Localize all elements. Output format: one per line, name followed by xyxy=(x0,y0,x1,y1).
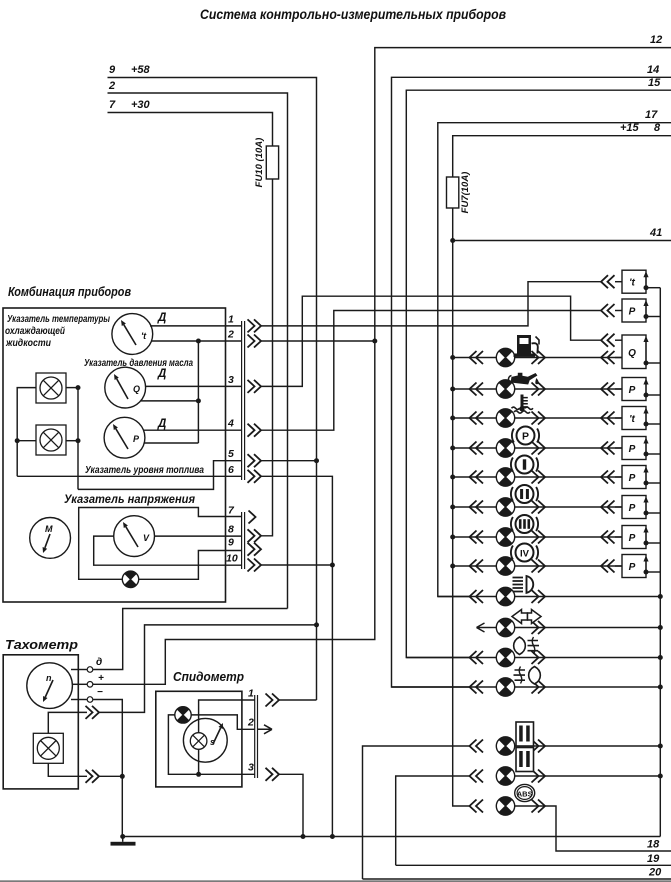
icon coolant temperature xyxy=(512,395,534,414)
svg-text:Спидометр: Спидометр xyxy=(173,669,244,684)
indicator lamp oil pressure xyxy=(496,380,514,398)
wire fuel gauge to +12 bus corner xyxy=(144,442,198,444)
voltmeter gauge V xyxy=(114,516,155,557)
right chevron oil pressure row xyxy=(532,383,546,396)
speedometer pin 1 xyxy=(248,688,279,707)
indicator lamp fuel level xyxy=(496,348,514,366)
tach lamp minus chevron xyxy=(86,770,100,783)
svg-text:1: 1 xyxy=(228,313,234,325)
sensor parking brake (P) xyxy=(622,437,660,460)
wire lamp to sensor axle II xyxy=(515,506,622,508)
icon circuit III xyxy=(511,515,538,533)
wire lamp HL2 left xyxy=(17,440,36,442)
svg-text:Q: Q xyxy=(628,348,636,359)
wire +15 bus to axle III lamp row xyxy=(453,536,497,538)
junction lamp plus bus top xyxy=(76,385,81,390)
junction plus bus at HL2 xyxy=(76,438,81,443)
junction +15 bus row IV xyxy=(450,564,455,569)
icon oil can xyxy=(509,373,539,385)
wire pin 2 to +12 line-12 bus xyxy=(261,340,375,342)
svg-text:P: P xyxy=(133,434,140,444)
wire lamp HL2 right xyxy=(66,440,78,442)
sensor chevron axle I xyxy=(601,471,615,484)
svg-text:Д: Д xyxy=(157,312,166,324)
cluster pin 8 xyxy=(228,523,261,542)
sensor axle IV (P) xyxy=(622,555,660,578)
junction ground bus brake 1 xyxy=(658,744,663,749)
indicator lamp of speedometer xyxy=(175,707,191,723)
wire speedo lamp bottom to ground wire xyxy=(198,749,200,774)
cluster pin 7 xyxy=(228,505,256,524)
junction minus riser xyxy=(120,774,125,779)
icon front fog lamp xyxy=(514,637,539,655)
wire line 41 from +15 bus to right edge xyxy=(453,240,671,242)
cluster pin 6 xyxy=(228,464,261,483)
left chevron axle III row xyxy=(470,531,484,544)
wire line 20 xyxy=(363,878,671,880)
wire voltmeter left to pin 10 xyxy=(94,536,242,565)
sensor input stub axle III xyxy=(615,536,622,538)
wire tach lamp plus to chevron xyxy=(48,712,87,733)
sensor chevron parking brake xyxy=(601,442,615,455)
indicator lamp ABS xyxy=(496,797,514,815)
wire +15 bus to fuel level lamp row xyxy=(453,357,497,359)
wire turn lamp to ground bus xyxy=(515,627,661,629)
wire +15 bus to oil pressure lamp row xyxy=(453,388,497,390)
icon rear fog lamp xyxy=(514,667,541,685)
right chevron axle II row xyxy=(532,501,546,514)
junction speedo ground riser xyxy=(301,834,306,839)
svg-text:8: 8 xyxy=(228,523,234,535)
wire lamp to sensor axle IV xyxy=(515,565,622,567)
icon brake pads 1 xyxy=(516,722,534,746)
wire +15 bus to coolant temp lamp row xyxy=(453,417,497,419)
junction +12 internal bus at temp gauge xyxy=(196,339,201,344)
left chevron rear fog xyxy=(470,681,484,694)
svg-text:P: P xyxy=(629,385,636,396)
wire +15 bus to axle I lamp row xyxy=(453,476,497,478)
wire line 2 to vertical bus x=287.5 xyxy=(108,93,288,609)
illumination lamp HL1 of cluster xyxy=(36,373,66,403)
sensor common ground bus (right) xyxy=(659,288,661,837)
svg-text:14: 14 xyxy=(647,64,659,76)
sensor chevron fuel level xyxy=(601,351,615,364)
wire lamp front fog to ground bus xyxy=(515,657,661,659)
open arrow turn signal feed xyxy=(477,623,491,632)
svg-text:2: 2 xyxy=(108,80,115,92)
chevron fuel gauge input of Q xyxy=(601,334,615,347)
wire pin 8 from FU10 is drawn above xyxy=(261,535,262,537)
svg-text:12: 12 xyxy=(650,34,662,46)
svg-text:P: P xyxy=(629,473,636,484)
oil pressure gauge xyxy=(105,367,146,408)
svg-text:FU7(10A): FU7(10A) xyxy=(460,172,471,214)
svg-text:ABS: ABS xyxy=(517,789,533,798)
lamp plus bus x=78 xyxy=(77,388,79,490)
junction ground bus rear fog xyxy=(658,685,663,690)
instrument cluster box xyxy=(3,308,226,602)
wire +15 bus to axle IV lamp row xyxy=(453,565,497,567)
junction ground bus headlamp beam xyxy=(658,594,663,599)
wire lamp to sensor oil pressure xyxy=(515,388,622,390)
ground symbol xyxy=(111,837,136,846)
fuse FU7 (10A) xyxy=(447,172,472,214)
sensor chevron coolant temp xyxy=(601,412,615,425)
svg-text:4: 4 xyxy=(227,418,234,430)
junction minus bus at HL2 xyxy=(15,438,20,443)
svg-text:8: 8 xyxy=(654,122,661,134)
wire lamp HL1 right to lamp plus bus xyxy=(66,387,78,389)
clock gauge М xyxy=(30,518,71,559)
wire line 15 bus (x=406.3) down to front fog lamp row xyxy=(406,90,671,657)
svg-text:2: 2 xyxy=(247,717,254,729)
cluster connector block pins 1-6 xyxy=(241,321,243,480)
svg-text:Указатель уровня топлива: Указатель уровня топлива xyxy=(85,464,204,476)
wire temp gauge to pin 1 xyxy=(150,325,242,327)
wire pin 3 to fuel sender Q xyxy=(261,296,601,386)
speedometer illumination lamp xyxy=(190,733,207,750)
junction pin5 on +58 bus xyxy=(314,458,319,463)
junction +15 bus row park xyxy=(450,446,455,451)
left chevron parking brake row xyxy=(470,442,484,455)
junction pin2 on line-12 bus xyxy=(372,339,377,344)
junction +15 bus row I xyxy=(450,475,455,480)
sensor input stub axle I xyxy=(615,476,622,478)
left chevron oil pressure row xyxy=(470,383,484,396)
wire brake-1 lamp to ground bus xyxy=(515,745,661,747)
icon circuit I xyxy=(511,456,538,474)
fuel level gauge xyxy=(104,417,145,458)
svg-text:6: 6 xyxy=(228,464,234,476)
cluster pin 5 xyxy=(228,448,261,467)
right chevron turn row xyxy=(532,621,546,634)
wire line 8 (+15) down to fuse FU7 xyxy=(453,136,671,177)
svg-text:FU10 (10A): FU10 (10A) xyxy=(254,138,265,188)
svg-text:+15: +15 xyxy=(620,122,640,134)
svg-text:Тахометр: Тахометр xyxy=(5,637,78,652)
svg-text:жидкости: жидкости xyxy=(5,337,51,349)
junction +58 bus to tach/speedo illumination xyxy=(314,622,319,627)
sensor input stub axle IV xyxy=(615,565,622,567)
internal +12 bus of cluster xyxy=(197,341,199,443)
wire voltmeter right to pin 8 xyxy=(155,535,243,537)
right chevron fuel level row xyxy=(532,351,546,364)
svg-text:Система контрольно-измеритель: Система контрольно-измерительных приборо… xyxy=(200,7,506,22)
sensor axle II (P) xyxy=(622,496,660,519)
wire speedo illumination lamp to pin 1 xyxy=(199,700,255,733)
junction +15 bus row temp xyxy=(450,416,455,421)
wire lamp headlamp beam to ground bus xyxy=(515,596,661,598)
svg-text:17: 17 xyxy=(645,109,658,121)
icon fuel pump xyxy=(514,335,540,357)
wire line 14 bus (x=391.5) down to rear fog lamp row xyxy=(392,77,671,687)
icon turn signals xyxy=(512,610,541,624)
wire line 17 bus (x=437.8) down to headlamp row xyxy=(438,123,671,597)
sensor axle III (P) xyxy=(622,526,660,549)
wire speedo indicator left / ground loop to pin 3 xyxy=(168,715,254,774)
wire ABS lamp to line 18 xyxy=(515,806,671,851)
left chevron axle IV row xyxy=(470,560,484,573)
svg-text:V: V xyxy=(143,533,150,543)
wire line 19 xyxy=(396,864,671,866)
cluster pin 1 xyxy=(228,313,261,332)
svg-text:10: 10 xyxy=(226,553,238,565)
svg-text:5: 5 xyxy=(228,448,234,460)
svg-text:P: P xyxy=(629,503,636,514)
svg-text:15: 15 xyxy=(648,77,661,89)
icon headlamp beam xyxy=(513,576,534,593)
wire temp gauge sensor row chevron xyxy=(601,275,615,288)
wire lamp headlamp beam left xyxy=(438,596,497,598)
wire pin 5 to +58 bus xyxy=(261,460,317,462)
svg-text:1: 1 xyxy=(248,688,254,700)
left chevron coolant temp row xyxy=(470,412,484,425)
wire lamp HL3 right to pin 9 xyxy=(139,551,242,580)
tachometer terminal + xyxy=(72,673,104,687)
svg-text:охлаждающей: охлаждающей xyxy=(5,325,65,337)
svg-text:41: 41 xyxy=(649,227,662,239)
sensor chevron axle II xyxy=(601,501,615,514)
speedometer pin 2 xyxy=(247,717,272,734)
svg-text:n: n xyxy=(46,673,52,683)
sensor chevron axle IV xyxy=(601,560,615,573)
svg-text:Д: Д xyxy=(157,368,166,380)
wire tach lamp minus to ground riser xyxy=(99,775,122,777)
indicator lamp parking brake xyxy=(496,439,514,457)
indicator lamp brake 1 xyxy=(496,737,514,755)
junction ground node xyxy=(120,834,125,839)
svg-text:Д: Д xyxy=(157,418,166,430)
svg-text:P: P xyxy=(522,430,529,442)
sensor fuel level Q (two inputs) xyxy=(622,335,660,369)
svg-text:20: 20 xyxy=(648,867,662,879)
right chevron brake 2 xyxy=(532,770,546,783)
junction pin10 on ground riser xyxy=(330,563,335,568)
svg-text:7: 7 xyxy=(109,99,116,111)
wire oil gauge to +12 bus xyxy=(141,400,198,402)
wire oil gauge sensor row chevron xyxy=(601,304,615,317)
wire turn arrow to lamp xyxy=(491,627,497,629)
illumination lamp HL2 of cluster xyxy=(36,425,66,455)
left chevron axle II row xyxy=(470,501,484,514)
indicator lamp turn signal xyxy=(496,618,514,636)
svg-text:IV: IV xyxy=(520,548,530,559)
left chevron brake 1 xyxy=(470,740,484,753)
indicator lamp axle II xyxy=(496,498,514,516)
left chevron front fog xyxy=(470,651,484,664)
indicator lamp headlamp beam xyxy=(496,587,514,605)
wire FU10 output down to cluster pin 8 xyxy=(262,179,273,536)
svg-text:М: М xyxy=(45,524,53,534)
right chevron front fog xyxy=(532,651,546,664)
svg-text:'t: 't xyxy=(629,414,635,425)
wire terminal + to line 12 drawn above xyxy=(93,683,94,685)
svg-text:Q: Q xyxy=(133,384,140,394)
left chevron ABS xyxy=(470,800,484,813)
tachometer gauge n xyxy=(27,663,73,709)
svg-text:9: 9 xyxy=(228,537,234,549)
indicator lamp HL3 of voltage gauge xyxy=(122,571,138,587)
speedometer pin 3 xyxy=(248,762,279,781)
indicator lamp coolant temp xyxy=(496,409,514,427)
tachometer terminal - xyxy=(71,687,103,702)
tachometer box xyxy=(3,655,78,789)
left chevron headlamp beam xyxy=(470,590,484,603)
speedometer box xyxy=(156,691,242,787)
wire +15 bus x=452.7 from FU7 down to ABS lamp row xyxy=(453,208,470,806)
indicator lamp axle III xyxy=(496,528,514,546)
stub fuel lamp row into Q xyxy=(615,357,622,359)
sensor coolant temperature gauge ('t) xyxy=(622,270,660,293)
svg-text:19: 19 xyxy=(647,853,660,865)
junction ground bus turn row xyxy=(658,625,663,630)
svg-text:3: 3 xyxy=(248,762,254,774)
cluster pin 2 xyxy=(227,329,261,348)
icon circuit II xyxy=(511,485,538,503)
svg-text:3: 3 xyxy=(228,374,234,386)
svg-text:Указатель давления масла: Указатель давления масла xyxy=(84,357,193,369)
cluster pin 4 xyxy=(227,418,261,437)
svg-text:+58: +58 xyxy=(131,64,151,76)
right chevron parking brake row xyxy=(532,442,546,455)
icon parking brake (P) xyxy=(512,427,539,445)
cluster pin 10 xyxy=(226,553,261,572)
ground wire across bottom xyxy=(123,836,661,838)
wire terminal д up to line 2 xyxy=(93,609,288,670)
wire +30: line 7 down to fuse FU10 xyxy=(108,113,273,147)
svg-text:−: − xyxy=(97,687,103,698)
cluster connector block pins 7-10 xyxy=(241,512,243,569)
coolant temperature gauge xyxy=(112,314,153,355)
tachometer terminal д xyxy=(71,657,102,672)
junction +15 bus row oil xyxy=(450,387,455,392)
wire +15 bus to parking brake lamp row xyxy=(453,447,497,449)
sensor oil pressure (P) xyxy=(622,378,660,401)
wire lamp rear fog to ground bus xyxy=(515,686,661,688)
indicator lamp axle IV xyxy=(496,557,514,575)
wire terminal - down to ground xyxy=(93,700,122,837)
icon brake pads 2 xyxy=(516,748,534,772)
speedometer connector block xyxy=(254,695,256,778)
fuse FU10 (10A) xyxy=(254,138,279,188)
left chevron fuel level row xyxy=(470,351,484,364)
wire lamp minus bus to pin 6 xyxy=(17,475,242,477)
indicator lamp axle I xyxy=(496,468,514,486)
wire lamp to sensor parking brake xyxy=(515,447,622,449)
right chevron ABS xyxy=(532,800,546,813)
sensor axle I (P) xyxy=(622,466,660,489)
wire fuel gauge to pin 4 xyxy=(144,429,243,431)
wire +58: line 9 to vertical bus x=316.5 xyxy=(108,78,317,701)
scan border bottom xyxy=(0,880,671,882)
wire lamp front fog left xyxy=(406,657,496,659)
right chevron rear fog xyxy=(532,681,546,694)
wire voltage block loop: pin 7 to lamp HL3 left xyxy=(79,508,242,580)
wire lamp to sensor fuel level xyxy=(515,357,622,359)
wire tach illumination to +58 riser xyxy=(99,625,317,713)
junction +12 bus at oil gauge xyxy=(196,398,201,403)
right chevron headlamp beam xyxy=(532,590,546,603)
svg-text:+30: +30 xyxy=(131,99,151,111)
wire lamp rear fog left xyxy=(392,686,497,688)
svg-text:Указатель напряжения: Указатель напряжения xyxy=(64,492,195,506)
wire lamp to sensor coolant temp xyxy=(515,417,622,419)
right chevron axle I row xyxy=(532,471,546,484)
left chevron axle I row xyxy=(470,471,484,484)
label Указатель температуры охлаждающей жидкости xyxy=(5,313,110,349)
illumination lamp of tachometer xyxy=(33,733,63,763)
svg-text:Комбинация приборов: Комбинация приборов xyxy=(8,284,131,299)
wire pin 5 (+58) to lamp plus bus xyxy=(78,461,242,490)
wire lamp to sensor axle III xyxy=(515,536,622,538)
indicator lamp rear fog xyxy=(496,678,514,696)
svg-text:P: P xyxy=(629,562,636,573)
icon ABS xyxy=(515,784,535,801)
svg-text:P: P xyxy=(629,444,636,455)
svg-text:д: д xyxy=(96,657,102,668)
wire oil gauge to pin 3 xyxy=(146,385,243,387)
junction +15 bus row II xyxy=(450,505,455,510)
wire pin 10 to ground riser xyxy=(261,564,332,566)
wire brake-1 row from line 20 riser xyxy=(363,746,471,879)
indicator lamp front fog xyxy=(496,648,514,666)
tach illumination output chevron xyxy=(86,706,100,719)
svg-text:9: 9 xyxy=(109,64,116,76)
sensor input stub parking brake xyxy=(615,447,622,449)
junction +15/line41 xyxy=(450,238,455,243)
wire pin 1 to temp sensor xyxy=(261,282,601,326)
wire lamp to sensor axle I xyxy=(515,476,622,478)
svg-text:18: 18 xyxy=(647,839,660,851)
sensor coolant temp ('t) xyxy=(622,407,660,430)
wire speedo indicator right to pin 2 xyxy=(191,715,254,729)
svg-text:Указатель температуры: Указатель температуры xyxy=(7,313,110,325)
right chevron axle IV row xyxy=(532,560,546,573)
junction speedo ground wire xyxy=(196,772,201,777)
left chevron brake 2 xyxy=(470,770,484,783)
svg-text:2: 2 xyxy=(227,329,234,341)
right chevron axle III row xyxy=(532,531,546,544)
icon circuit IV xyxy=(511,544,538,562)
wire temp gauge to +12 bus / pin 2 xyxy=(151,340,242,342)
svg-text:P: P xyxy=(629,533,636,544)
junction ground bus front fog xyxy=(658,655,663,660)
junction ground bus brake 2 xyxy=(658,774,663,779)
wire tach lamp minus to chevron xyxy=(48,763,87,776)
sensor input stub oil pressure xyxy=(615,388,622,390)
cluster pin 3 xyxy=(228,374,261,393)
junction +15 bus row III xyxy=(450,535,455,540)
right chevron brake 1 xyxy=(532,740,546,753)
wire brake-2 lamp to ground bus xyxy=(515,775,661,777)
right chevron coolant temp row xyxy=(532,412,546,425)
sensor oil pressure gauge (P) xyxy=(622,299,660,322)
junction cluster ground riser xyxy=(330,834,335,839)
wire speedo pin 3 to ground xyxy=(279,774,303,836)
speedometer gauge circle xyxy=(183,718,227,762)
wire line 12 bus (x=374.8) down, then left to tachometer + xyxy=(93,48,671,685)
wire pin 4 to oil pressure sender xyxy=(261,311,601,431)
svg-text:'t: 't xyxy=(629,278,635,289)
sensor input stub coolant temp xyxy=(615,417,622,419)
cluster pin 9 xyxy=(228,537,261,556)
indicator lamp brake 2 xyxy=(496,767,514,785)
wire brake-2 row from line 19 riser xyxy=(396,776,470,865)
wire speedo pin 1 to +58 bus xyxy=(279,699,317,701)
sensor chevron axle III xyxy=(601,531,615,544)
wire lamp HL1 left to lamp minus bus xyxy=(17,388,36,477)
wire pin 6 to ground riser xyxy=(261,476,332,836)
